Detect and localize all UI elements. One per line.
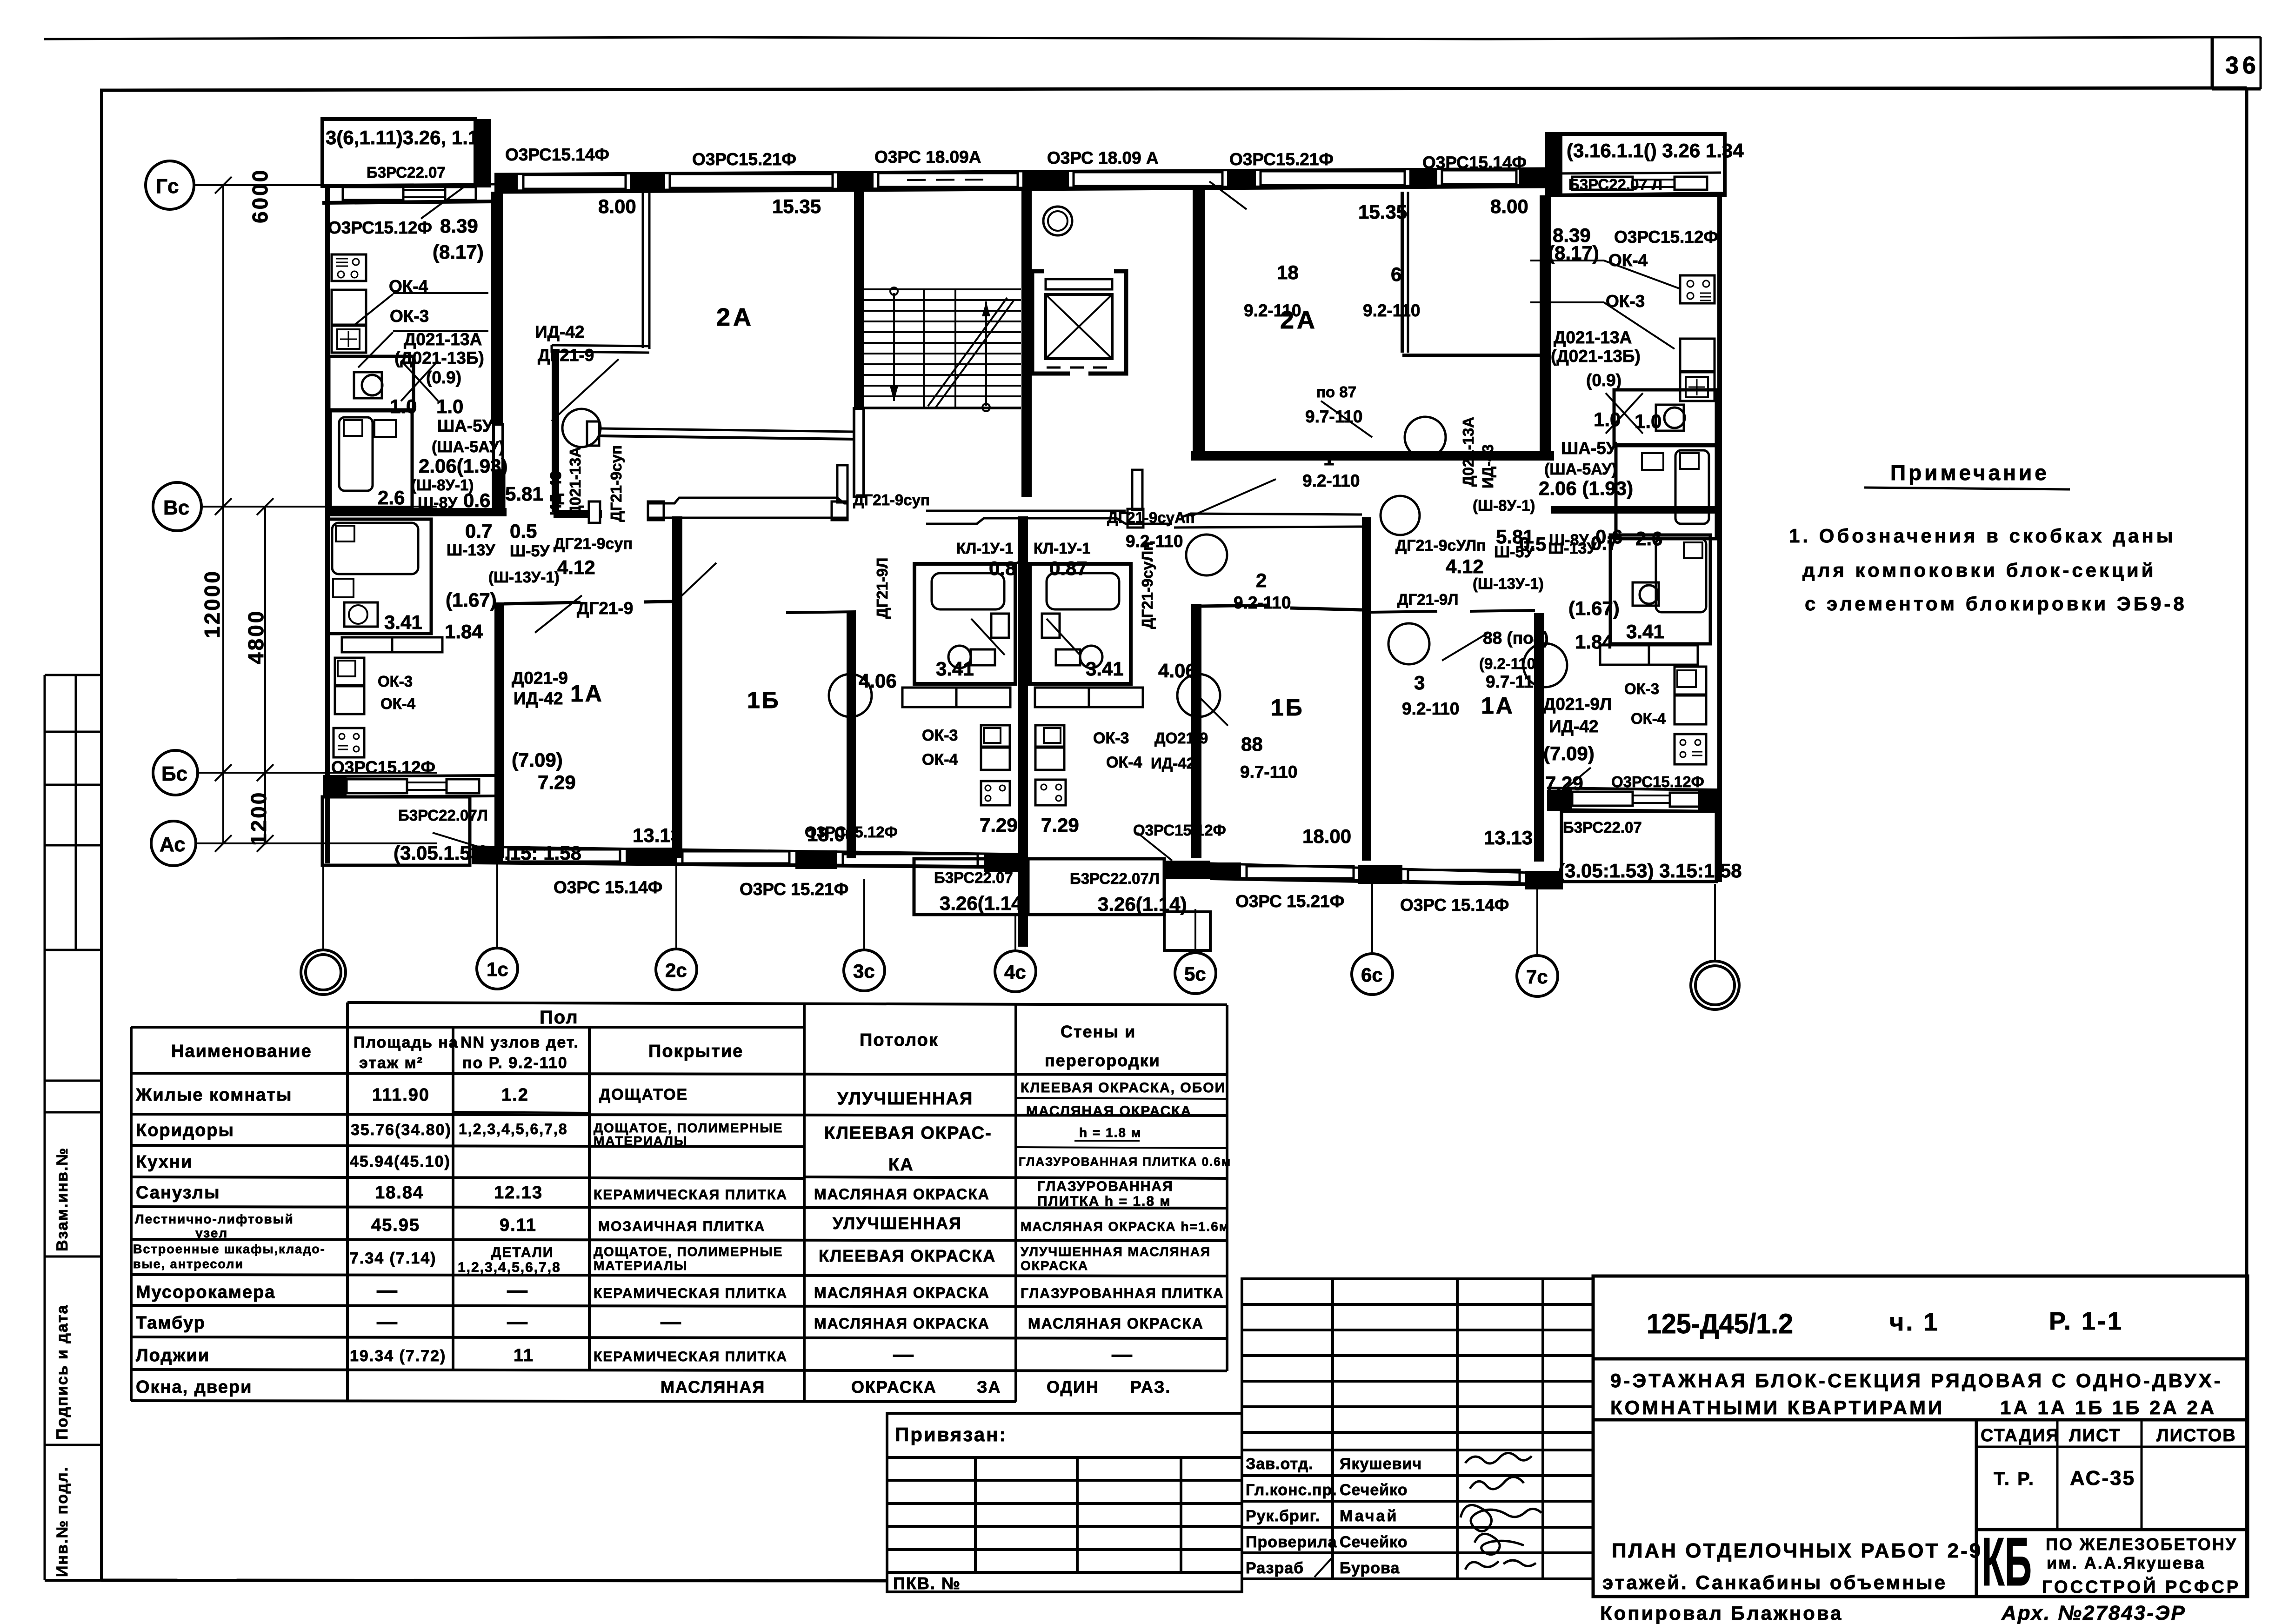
svg-text:Привязан:: Привязан: [895, 1424, 1007, 1445]
svg-text:ДГ21-9суАп: ДГ21-9суАп [1107, 509, 1195, 526]
svg-text:0.87: 0.87 [1049, 557, 1088, 579]
wall top of 1B-right [1201, 605, 1268, 606]
svg-text:9.7-110: 9.7-110 [1486, 672, 1543, 691]
svg-text:МАСЛЯНАЯ ОКРАСКА h=1.6м: МАСЛЯНАЯ ОКРАСКА h=1.6м [1021, 1219, 1230, 1234]
svg-text:(8.17): (8.17) [433, 241, 484, 263]
1A top wall with door [504, 602, 581, 604]
corridor beam DG21-9sup left-center [648, 498, 847, 503]
leader lines down to bottom circles [323, 862, 1715, 961]
svg-text:с элементом блокировки ЭБ9-8: с элементом блокировки ЭБ9-8 [1805, 593, 2187, 615]
svg-text:ОК-3: ОК-3 [1093, 729, 1129, 747]
corridor beam right-center [926, 510, 1126, 512]
svg-text:1А: 1А [1481, 693, 1515, 719]
svg-text:(0.9): (0.9) [426, 368, 461, 387]
svg-text:Стены и: Стены и [1061, 1022, 1136, 1041]
svg-text:7.29: 7.29 [538, 771, 576, 793]
svg-text:3.41: 3.41 [384, 611, 422, 633]
svg-text:Арх. №27843-ЭР: Арх. №27843-ЭР [2001, 1602, 2186, 1624]
signatures squiggles [1314, 1453, 1541, 1577]
svg-text:18: 18 [1277, 261, 1299, 283]
left lower kitchen fixtures [334, 728, 364, 757]
svg-text:ДОЩАТОЕ, ПОЛИМЕРНЫЕ: ДОЩАТОЕ, ПОЛИМЕРНЫЕ [594, 1121, 783, 1135]
right loggia top box [1547, 134, 1725, 195]
svg-text:9.2-110: 9.2-110 [1402, 699, 1459, 718]
svg-text:1А: 1А [570, 681, 604, 707]
svg-text:8.00: 8.00 [598, 195, 636, 217]
svg-text:8.00: 8.00 [1490, 195, 1528, 217]
svg-text:36: 36 [2225, 52, 2260, 79]
svg-text:Бс: Бс [161, 762, 187, 785]
svg-text:2.06(1.93): 2.06(1.93) [419, 455, 507, 477]
svg-text:КЛЕЕВАЯ ОКРАСКА: КЛЕЕВАЯ ОКРАСКА [819, 1246, 996, 1265]
bottom wall band right apartments [1210, 863, 1563, 874]
svg-text:ША-5У: ША-5У [437, 416, 494, 435]
svg-text:Д021-13А: Д021-13А [1554, 328, 1632, 347]
svg-text:СТАДИЯ: СТАДИЯ [1981, 1426, 2060, 1445]
svg-text:3: 3 [1414, 672, 1425, 694]
svg-text:0.5: 0.5 [510, 520, 537, 542]
svg-text:КБ: КБ [1982, 1524, 2032, 1600]
svg-text:МАСЛЯНАЯ ОКРАСКА: МАСЛЯНАЯ ОКРАСКА [1028, 1315, 1204, 1332]
svg-text:О3РС 15.14Ф: О3РС 15.14Ф [554, 878, 662, 897]
svg-text:4с: 4с [1004, 961, 1026, 983]
svg-text:1: 1 [1323, 448, 1334, 469]
svg-text:УЛУЧШЕННАЯ: УЛУЧШЕННАЯ [833, 1214, 962, 1233]
svg-text:9.7-110: 9.7-110 [1305, 407, 1362, 426]
svg-text:—: — [507, 1310, 528, 1333]
svg-text:О3РС15.21Ф: О3РС15.21Ф [692, 150, 796, 169]
svg-text:9.2-110: 9.2-110 [1363, 301, 1420, 320]
svg-text:О3РС15.21Ф: О3РС15.21Ф [1229, 150, 1334, 169]
top band left (Gc wall) [322, 184, 494, 185]
wall kitchen/room2A right [1540, 195, 1551, 454]
svg-text:1,2,3,4,5,6,7,8: 1,2,3,4,5,6,7,8 [458, 1260, 561, 1275]
svg-text:Мачай: Мачай [1340, 1507, 1398, 1525]
svg-text:Ш-8У: Ш-8У [1549, 531, 1589, 549]
room 2A left: bottom corner wall segment [552, 345, 649, 346]
wall 1B/1A right [1362, 517, 1371, 861]
svg-text:7.29: 7.29 [1041, 814, 1079, 836]
center lower loggia band [914, 859, 1028, 915]
vertical dimension chains [222, 185, 224, 843]
svg-text:(Ш-8У-1): (Ш-8У-1) [1473, 497, 1535, 514]
svg-text:(0.9): (0.9) [1586, 371, 1621, 390]
svg-text:h = 1.8 м: h = 1.8 м [1079, 1125, 1141, 1140]
room 2A right bottom wall [1191, 451, 1554, 461]
svg-text:ПЛИТКА h = 1.8 м: ПЛИТКА h = 1.8 м [1037, 1194, 1171, 1209]
svg-text:1200: 1200 [247, 791, 271, 846]
svg-text:Санузлы: Санузлы [136, 1183, 220, 1203]
svg-text:ч. 1: ч. 1 [1889, 1308, 1939, 1336]
svg-text:11: 11 [514, 1346, 534, 1365]
svg-text:ША-5У: ША-5У [1561, 439, 1617, 458]
svg-text:по Р. 9.2-110: по Р. 9.2-110 [462, 1054, 568, 1072]
dimension texts rotated [200, 168, 272, 846]
svg-text:Примечание: Примечание [1890, 461, 2049, 485]
wall left of 1B-right [1191, 604, 1201, 858]
svg-text:2А: 2А [716, 303, 754, 331]
svg-text:Проверила: Проверила [1246, 1533, 1337, 1551]
svg-text:МАСЛЯНАЯ ОКРАСКА: МАСЛЯНАЯ ОКРАСКА [814, 1315, 990, 1332]
svg-text:(Д021-13Б): (Д021-13Б) [1551, 347, 1641, 366]
svg-text:ДОЩАТОЕ: ДОЩАТОЕ [599, 1086, 688, 1103]
svg-text:Кухни: Кухни [136, 1152, 193, 1172]
svg-text:Б3РС22.07: Б3РС22.07 [1563, 819, 1642, 836]
svg-text:О3РС15.14Ф: О3РС15.14Ф [1422, 153, 1527, 172]
svg-text:этажей. Санкабины объемные: этажей. Санкабины объемные [1602, 1571, 1947, 1593]
svg-text:7.29: 7.29 [1545, 772, 1583, 794]
svg-text:О3РС 15.14Ф: О3РС 15.14Ф [1400, 896, 1509, 915]
right Vc corridor wall [1551, 506, 1721, 514]
svg-text:О3РС15.12Ф: О3РС15.12Ф [1611, 773, 1704, 790]
svg-text:Тамбур: Тамбур [136, 1313, 206, 1333]
svg-text:Р. 1-1: Р. 1-1 [2049, 1307, 2123, 1335]
svg-text:ДГ21-9суп: ДГ21-9суп [554, 535, 633, 553]
svg-text:Б3РС22.07Л: Б3РС22.07Л [1070, 870, 1160, 887]
svg-text:Ш-13У: Ш-13У [447, 541, 495, 559]
svg-text:ОКРАСКА: ОКРАСКА [1021, 1258, 1088, 1273]
svg-text:Пол: Пол [540, 1007, 579, 1028]
svg-text:9.11: 9.11 [500, 1216, 537, 1235]
svg-text:ДГ21-9суп: ДГ21-9суп [607, 445, 625, 522]
svg-text:(1.67): (1.67) [1568, 597, 1620, 619]
svg-text:5.81: 5.81 [1496, 526, 1534, 548]
svg-text:ОК-3: ОК-3 [1624, 680, 1659, 697]
wall between 1A and kitchen (left lower) [494, 602, 504, 858]
svg-text:—: — [377, 1310, 398, 1333]
svg-text:ЛИСТ: ЛИСТ [2069, 1426, 2121, 1445]
right upper kitchen fixtures [1680, 275, 1715, 303]
svg-text:12.13: 12.13 [494, 1183, 543, 1203]
svg-text:ДГ21-9суЛп: ДГ21-9суЛп [1139, 541, 1156, 629]
svg-text:КЛЕЕВАЯ ОКРАС-: КЛЕЕВАЯ ОКРАС- [824, 1123, 992, 1143]
svg-text:1.0: 1.0 [1635, 410, 1661, 432]
svg-text:ОК-3: ОК-3 [1606, 292, 1645, 311]
svg-text:МАТЕРИАЛЫ: МАТЕРИАЛЫ [594, 1134, 687, 1148]
svg-text:3.26(1.14): 3.26(1.14) [940, 892, 1028, 914]
svg-text:1Б: 1Б [1271, 695, 1304, 721]
svg-text:ЛИСТОВ: ЛИСТОВ [2156, 1426, 2236, 1445]
svg-text:(1.67): (1.67) [446, 589, 497, 611]
svg-text:(Д021-13Б): (Д021-13Б) [394, 348, 484, 368]
svg-text:ДЕТАЛИ: ДЕТАЛИ [491, 1245, 554, 1260]
svg-text:ОКРАСКА: ОКРАСКА [851, 1377, 937, 1397]
detail circles [1405, 417, 1446, 458]
leader lines (selection) [354, 181, 1679, 861]
svg-text:1.0: 1.0 [390, 395, 417, 417]
svg-text:Коридоры: Коридоры [136, 1121, 234, 1140]
svg-text:МАСЛЯНАЯ: МАСЛЯНАЯ [661, 1377, 765, 1397]
frame left line [100, 90, 103, 1581]
right lower bathroom [1610, 535, 1710, 644]
svg-text:Вс: Вс [163, 496, 189, 519]
svg-text:7.34 (7.14): 7.34 (7.14) [350, 1250, 436, 1267]
svg-text:ДГ21-9сУЛп: ДГ21-9сУЛп [1395, 537, 1486, 555]
svg-text:ПЛАН ОТДЕЛОЧНЫХ РАБОТ 2-9: ПЛАН ОТДЕЛОЧНЫХ РАБОТ 2-9 [1612, 1539, 1982, 1562]
svg-text:1с: 1с [487, 958, 508, 980]
svg-text:Лоджии: Лоджии [136, 1346, 210, 1365]
svg-text:ИД-43: ИД-43 [547, 471, 564, 515]
stairs [864, 287, 1021, 411]
svg-text:15.35: 15.35 [1358, 201, 1407, 223]
svg-text:Б3РС22.07: Б3РС22.07 [934, 869, 1013, 886]
svg-text:узел: узел [195, 1226, 228, 1240]
svg-text:для компоковки блок-секций: для компоковки блок-секций [1802, 559, 2156, 581]
shelves under cabins [902, 688, 956, 707]
svg-text:1.84: 1.84 [445, 621, 483, 642]
svg-text:МАСЛЯНАЯ ОКРАСКА: МАСЛЯНАЯ ОКРАСКА [1026, 1103, 1192, 1119]
svg-text:3.41: 3.41 [936, 658, 974, 680]
left loggia top box [322, 119, 475, 186]
svg-text:19.34 (7.72): 19.34 (7.72) [350, 1347, 446, 1365]
right lower kitchen fixtures [1675, 667, 1706, 695]
svg-text:Сечейко: Сечейко [1340, 1481, 1408, 1499]
svg-text:—: — [507, 1279, 528, 1302]
svg-text:ДГ21-9: ДГ21-9 [577, 599, 633, 618]
svg-text:(3.05.1.53) 3.15: 1.58: (3.05.1.53) 3.15: 1.58 [394, 842, 581, 864]
svg-text:им. А.А.Якушева: им. А.А.Якушева [2047, 1553, 2205, 1572]
svg-text:0.7: 0.7 [465, 520, 492, 542]
svg-text:ОК-4: ОК-4 [389, 277, 428, 296]
svg-text:Д021-13А: Д021-13А [567, 447, 584, 516]
svg-text:0.6: 0.6 [463, 489, 490, 511]
right upper bathroom cluster [1614, 390, 1716, 445]
svg-text:Встроенные шкафы,кладо-: Встроенные шкафы,кладо- [133, 1242, 326, 1256]
svg-text:ЗА: ЗА [977, 1377, 1001, 1397]
svg-text:12000: 12000 [200, 569, 224, 638]
svg-text:15.35: 15.35 [772, 195, 821, 217]
svg-text:88: 88 [1241, 733, 1263, 755]
top band right [1547, 173, 1721, 174]
vent circle [1043, 207, 1072, 235]
svg-text:2.6: 2.6 [378, 487, 405, 508]
frame bottom line [101, 1580, 887, 1581]
svg-text:ОДИН: ОДИН [1047, 1377, 1099, 1397]
svg-text:4800: 4800 [244, 609, 268, 664]
svg-text:ОК-4: ОК-4 [1106, 754, 1142, 771]
svg-text:О3РС15.12Ф: О3РС15.12Ф [805, 823, 898, 841]
svg-text:1.0: 1.0 [1594, 408, 1621, 430]
svg-text:3.41: 3.41 [1086, 658, 1124, 680]
svg-text:6000: 6000 [248, 168, 272, 223]
stairwell left wall [854, 190, 864, 408]
svg-text:ИД-43: ИД-43 [1479, 444, 1496, 488]
svg-text:0.87: 0.87 [989, 557, 1027, 579]
lift shaft [1032, 271, 1126, 374]
svg-text:1. Обозначения в скобках дан: 1. Обозначения в скобках даны [1789, 525, 2176, 547]
svg-text:6: 6 [1391, 263, 1401, 285]
svg-text:3(6,1.11)3.26, 1.14: 3(6,1.11)3.26, 1.14 [326, 127, 490, 148]
svg-text:8.39: 8.39 [440, 215, 478, 237]
svg-text:перегородки: перегородки [1045, 1051, 1161, 1070]
sanitary cabins center [914, 564, 1015, 684]
sheet top scan line [44, 37, 2212, 39]
svg-text:ДОЩАТОЕ, ПОЛИМЕРНЫЕ: ДОЩАТОЕ, ПОЛИМЕРНЫЕ [594, 1244, 783, 1259]
svg-text:МАТЕРИАЛЫ: МАТЕРИАЛЫ [594, 1258, 687, 1273]
svg-text:Якушевич: Якушевич [1340, 1455, 1422, 1473]
svg-text:Б3РС22.07 Л: Б3РС22.07 Л [1568, 176, 1662, 193]
svg-text:(8.17): (8.17) [1548, 242, 1599, 264]
svg-text:Инв.№ подл.: Инв.№ подл. [53, 1466, 71, 1577]
svg-text:Гс: Гс [156, 175, 179, 198]
svg-text:О3РС15.12Ф: О3РС15.12Ф [328, 218, 432, 237]
page number box [2211, 37, 2214, 89]
svg-text:КЛ-1У-1: КЛ-1У-1 [1034, 540, 1091, 557]
svg-text:2.6: 2.6 [1635, 528, 1662, 549]
right bottom loggia box [1561, 811, 1716, 882]
svg-text:(3.05:1.53) 3.15:1.58: (3.05:1.53) 3.15:1.58 [1558, 860, 1742, 882]
svg-text:45.95: 45.95 [371, 1216, 420, 1235]
svg-text:Покрытие: Покрытие [648, 1042, 743, 1061]
svg-text:О3РС 18.09 А: О3РС 18.09 А [1047, 148, 1159, 167]
svg-text:Взам.инв.№: Взам.инв.№ [53, 1147, 71, 1251]
svg-text:88 (по4): 88 (по4) [1483, 628, 1549, 648]
svg-text:1.0: 1.0 [436, 395, 463, 417]
svg-text:ГЛАЗУРОВАННАЯ: ГЛАЗУРОВАННАЯ [1037, 1179, 1174, 1194]
svg-text:3.41: 3.41 [1626, 621, 1664, 642]
lift lobby right wall [1193, 190, 1205, 455]
frame right line [2245, 88, 2249, 1597]
svg-text:ИД-42: ИД-42 [514, 689, 563, 708]
svg-text:ИД-42: ИД-42 [1151, 755, 1195, 772]
svg-text:Окна, двери: Окна, двери [136, 1377, 252, 1397]
svg-text:РАЗ.: РАЗ. [1130, 1377, 1171, 1397]
svg-text:МАСЛЯНАЯ ОКРАСКА: МАСЛЯНАЯ ОКРАСКА [814, 1186, 990, 1203]
svg-text:по 87: по 87 [1316, 383, 1356, 401]
svg-text:Подпись и дата: Подпись и дата [53, 1304, 71, 1440]
svg-text:КЕРАМИЧЕСКАЯ ПЛИТКА: КЕРАМИЧЕСКАЯ ПЛИТКА [594, 1187, 787, 1203]
Bc band left (y~1669..1713) [323, 775, 494, 776]
svg-text:13.13: 13.13 [633, 824, 681, 846]
svg-text:ДГ21-9Л: ДГ21-9Л [874, 558, 891, 619]
svg-text:9.2-110: 9.2-110 [1234, 593, 1291, 612]
svg-text:МОЗАИЧНАЯ ПЛИТКА: МОЗАИЧНАЯ ПЛИТКА [598, 1219, 765, 1234]
svg-text:ОК-4: ОК-4 [1608, 251, 1648, 270]
svg-text:ОК-3: ОК-3 [378, 673, 413, 690]
svg-text:Сечейко: Сечейко [1340, 1533, 1408, 1551]
svg-text:4.06: 4.06 [1158, 660, 1196, 682]
svg-text:ОК-4: ОК-4 [380, 695, 416, 712]
svg-text:вые, антресоли: вые, антресоли [133, 1257, 244, 1271]
svg-text:7.29: 7.29 [980, 814, 1018, 836]
svg-text:—: — [1112, 1343, 1133, 1366]
svg-text:9-ЭТАЖНАЯ БЛОК-СЕКЦИЯ РЯДОВАЯ: 9-ЭТАЖНАЯ БЛОК-СЕКЦИЯ РЯДОВАЯ С ОДНО-ДВУ… [1610, 1370, 2223, 1391]
svg-text:Мусорокамера: Мусорокамера [136, 1283, 275, 1302]
left stamp column boxes [45, 675, 101, 1580]
svg-text:Площадь на: Площадь на [354, 1034, 459, 1051]
left lower bathroom (1A apt) [327, 519, 431, 634]
svg-text:ДГ21-9суп: ДГ21-9суп [853, 491, 930, 508]
svg-text:(7.09): (7.09) [1543, 742, 1595, 764]
svg-text:7с: 7с [1526, 966, 1548, 988]
left stamp vertical texts [53, 1147, 71, 1577]
kitchen stove left top [332, 254, 366, 281]
col6 inner sub-lines [1016, 1098, 1227, 1099]
svg-text:9.2-110: 9.2-110 [1244, 301, 1301, 320]
Vc corridor wall (left part) [325, 508, 507, 516]
bottom axis circles [301, 948, 1739, 1009]
svg-text:4.06: 4.06 [859, 670, 897, 692]
svg-text:Т. Р.: Т. Р. [1994, 1469, 2035, 1489]
svg-text:О3РС 15.21Ф: О3РС 15.21Ф [740, 880, 848, 899]
top band center [494, 168, 1547, 174]
svg-text:КЕРАМИЧЕСКАЯ ПЛИТКА: КЕРАМИЧЕСКАЯ ПЛИТКА [594, 1286, 787, 1301]
svg-text:Д021-9Л: Д021-9Л [1543, 695, 1612, 714]
left outer wall [325, 184, 330, 863]
svg-text:ОК-3: ОК-3 [390, 307, 429, 326]
svg-text:КЕРАМИЧЕСКАЯ ПЛИТКА: КЕРАМИЧЕСКАЯ ПЛИТКА [594, 1349, 787, 1364]
svg-text:О3РС15.12Ф: О3РС15.12Ф [1614, 227, 1718, 247]
svg-text:ГЛАЗУРОВАННАЯ ПЛИТКА 0.6м: ГЛАЗУРОВАННАЯ ПЛИТКА 0.6м [1019, 1155, 1231, 1169]
svg-text:УЛУЧШЕННАЯ МАСЛЯНАЯ: УЛУЧШЕННАЯ МАСЛЯНАЯ [1021, 1244, 1211, 1259]
svg-text:6с: 6с [1361, 964, 1383, 986]
svg-text:Д021-13А: Д021-13А [404, 330, 482, 349]
stair/lift divider wall [1021, 190, 1032, 497]
left upper bath room [330, 411, 412, 508]
svg-text:О3РС15.12Ф: О3РС15.12Ф [1133, 822, 1226, 839]
left bottom loggia box [322, 797, 470, 865]
corridor door head 5.81 area: small posts [493, 473, 504, 513]
svg-text:1.84: 1.84 [1575, 631, 1613, 653]
svg-text:(9.2-110): (9.2-110) [1479, 655, 1541, 672]
svg-text:2.06 (1.93): 2.06 (1.93) [1539, 477, 1633, 499]
svg-text:2: 2 [1256, 569, 1267, 591]
svg-text:ОК-3: ОК-3 [922, 727, 958, 744]
entrance box right of center [1164, 912, 1210, 950]
svg-text:Д021-9: Д021-9 [512, 668, 568, 688]
svg-text:NN узлов дет.: NN узлов дет. [460, 1034, 579, 1051]
svg-text:ГЛАЗУРОВАННАЯ ПЛИТКА: ГЛАЗУРОВАННАЯ ПЛИТКА [1021, 1286, 1224, 1301]
Bc band right (y~1692..1741) [1547, 788, 1721, 790]
svg-text:О3РС 18.09А: О3РС 18.09А [874, 147, 981, 167]
svg-text:Потолок: Потолок [860, 1030, 939, 1050]
svg-text:Ас: Ас [160, 833, 186, 856]
svg-text:18.00: 18.00 [1302, 825, 1351, 847]
central double wall [1018, 516, 1028, 947]
svg-text:1.2: 1.2 [501, 1085, 529, 1105]
svg-text:УЛУЧШЕННАЯ: УЛУЧШЕННАЯ [837, 1089, 973, 1109]
thick wall kitchen/room2A left [491, 192, 503, 424]
svg-text:О3РС15.12Ф: О3РС15.12Ф [331, 758, 435, 777]
svg-text:125-Д45/1.2: 125-Д45/1.2 [1647, 1308, 1793, 1339]
svg-text:—: — [377, 1279, 398, 1302]
kitchen sink/cabinet left top [332, 290, 366, 325]
svg-text:КЛЕЕВАЯ ОКРАСКА, ОБОИ: КЛЕЕВАЯ ОКРАСКА, ОБОИ [1021, 1080, 1226, 1096]
svg-text:ДГ21-9: ДГ21-9 [538, 346, 594, 365]
room 2A right upper-left corner walls [1401, 192, 1404, 353]
center kitchens fixtures [981, 725, 1010, 747]
svg-text:МАСЛЯНАЯ ОКРАСКА: МАСЛЯНАЯ ОКРАСКА [814, 1284, 990, 1301]
svg-text:Рук.бриг.: Рук.бриг. [1246, 1507, 1320, 1525]
axis circle Gc [146, 161, 201, 866]
svg-text:(ША-5АУ): (ША-5АУ) [1544, 461, 1617, 478]
svg-text:5с: 5с [1184, 963, 1206, 985]
svg-text:(ША-5АУ): (ША-5АУ) [432, 438, 504, 456]
wall 1A-right / kitchen-right [1534, 613, 1544, 862]
svg-text:Лестнично-лифтовый: Лестнично-лифтовый [135, 1212, 294, 1226]
svg-text:ОК-4: ОК-4 [1631, 710, 1666, 727]
svg-text:45.94(45.10): 45.94(45.10) [350, 1153, 451, 1170]
svg-text:Жилые комнаты: Жилые комнаты [135, 1085, 292, 1105]
wall 1A/1B left [672, 516, 682, 858]
svg-text:9.7-110: 9.7-110 [1240, 762, 1297, 782]
svg-text:Б3РС22.07: Б3РС22.07 [367, 164, 446, 181]
wall right of 1B-left [847, 613, 856, 858]
svg-text:АС-35: АС-35 [2070, 1467, 2135, 1490]
svg-text:ОК-4: ОК-4 [922, 751, 958, 769]
svg-text:4.12: 4.12 [1446, 555, 1484, 577]
svg-text:3с: 3с [853, 960, 875, 982]
